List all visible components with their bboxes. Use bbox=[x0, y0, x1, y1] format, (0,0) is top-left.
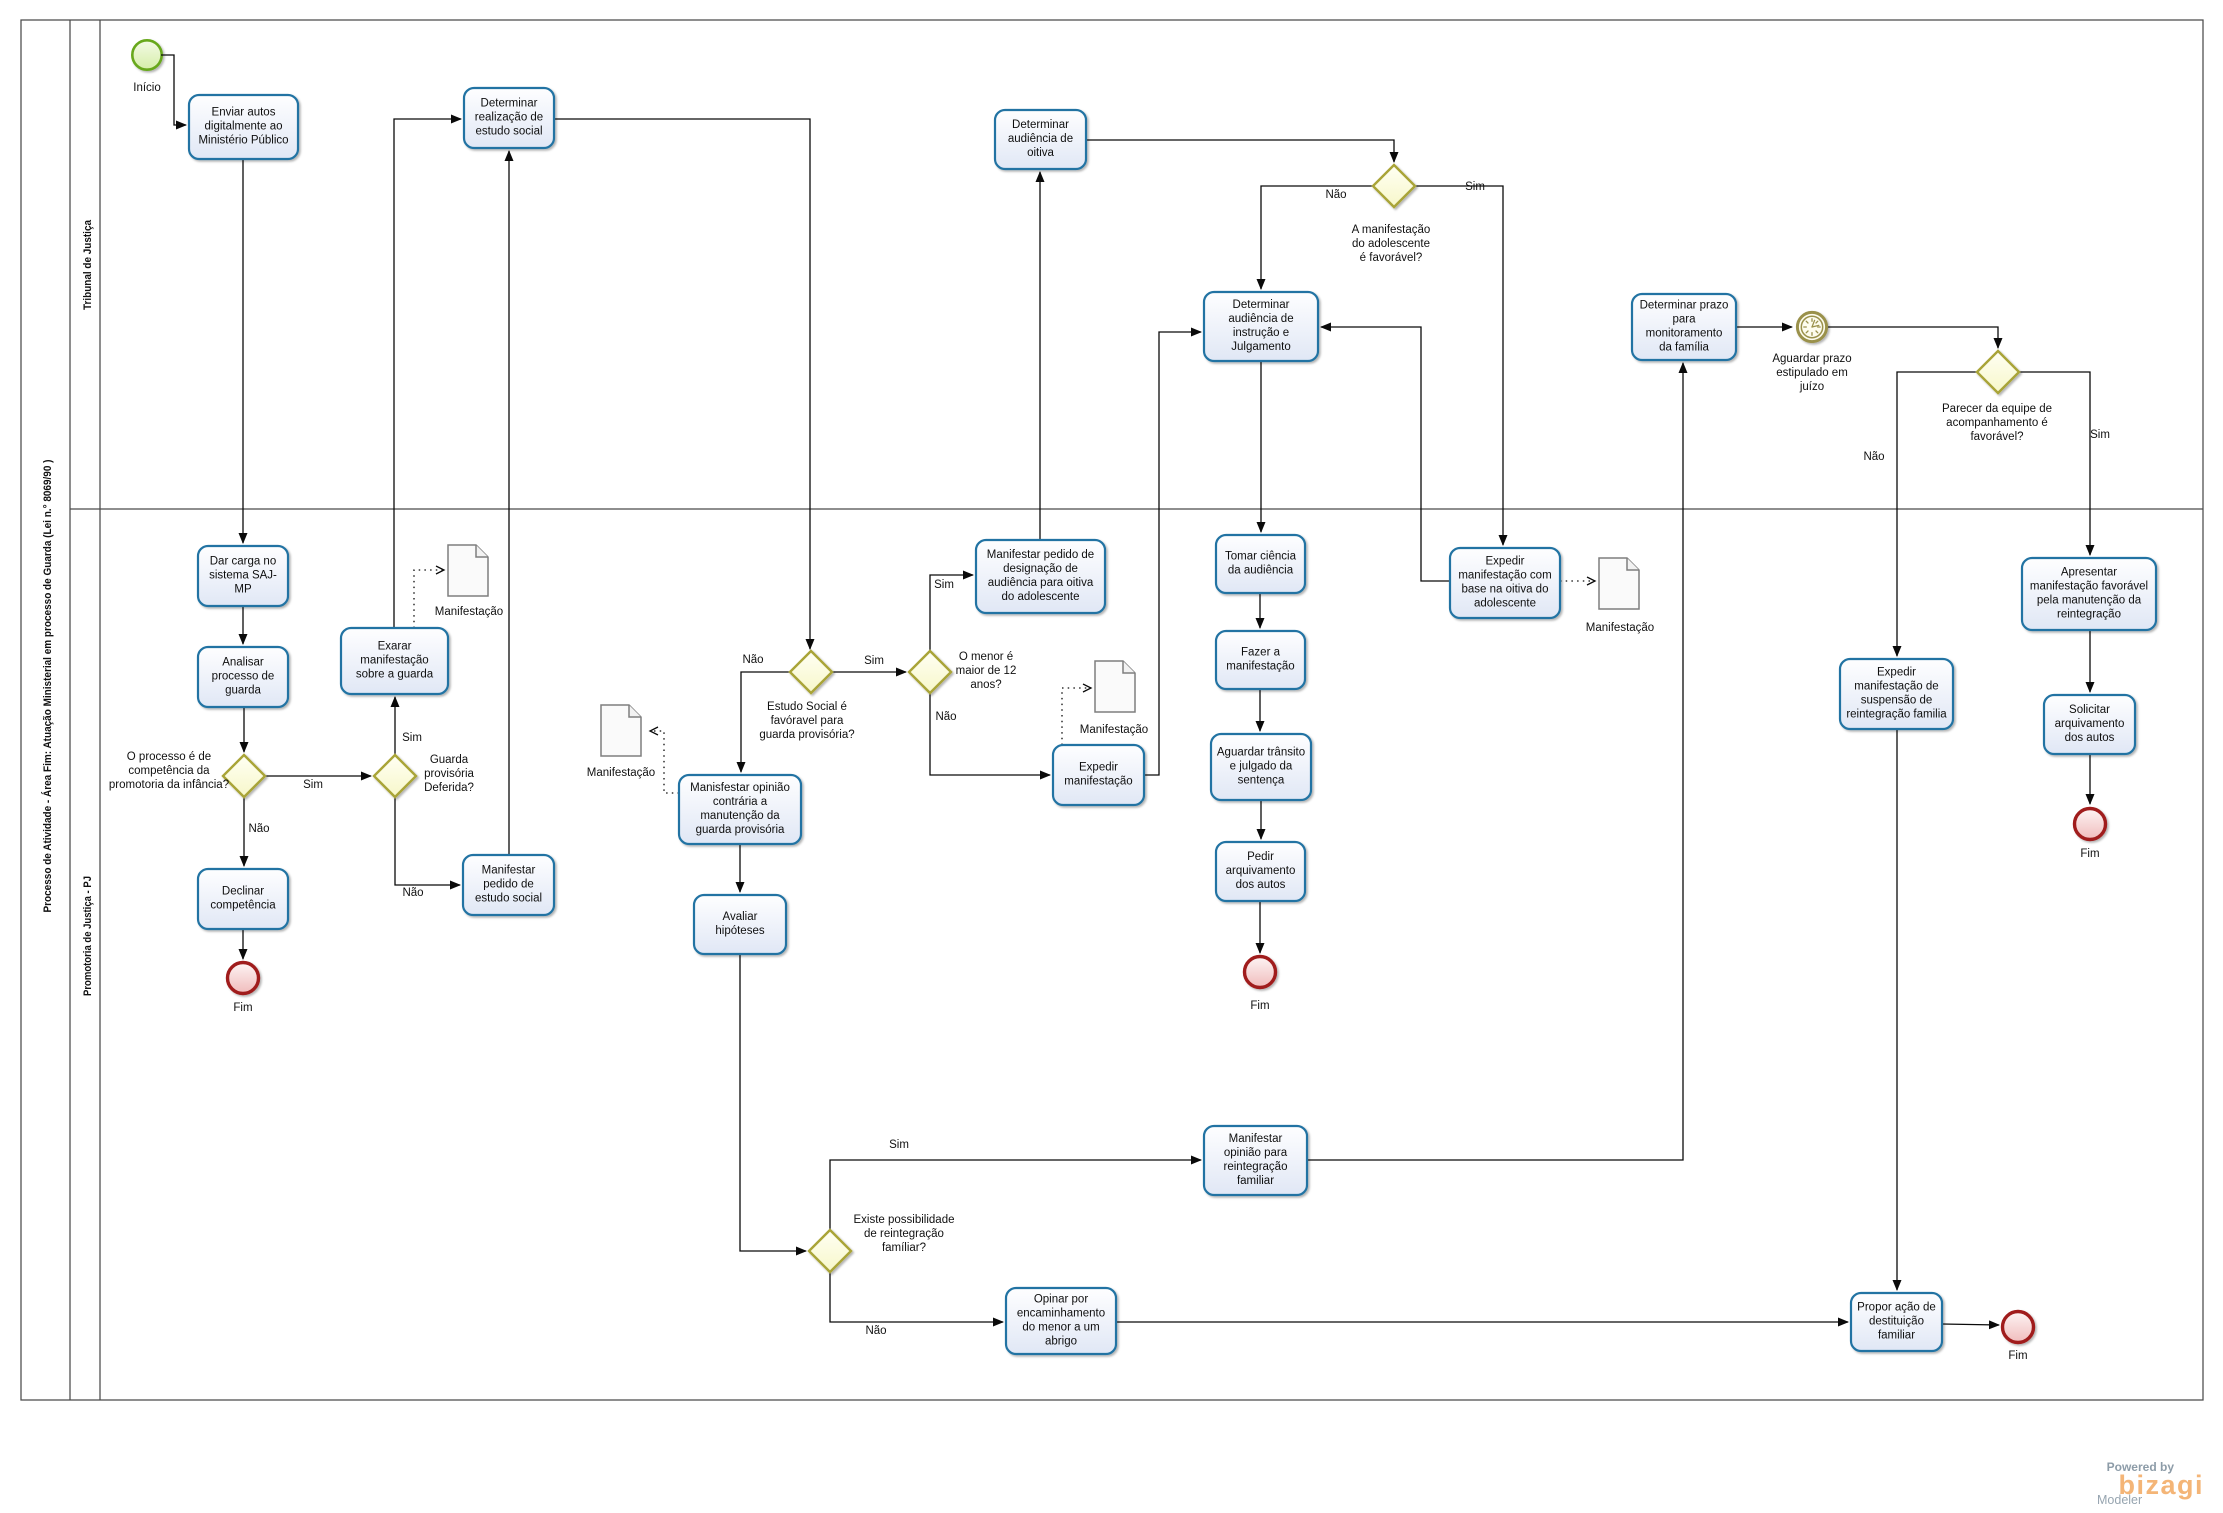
wire: Propor ação -> Fim bbox=[1942, 1324, 1999, 1325]
svg-text:Sim: Sim bbox=[934, 579, 954, 591]
task: Enviar autos digitalmente ao Ministério Público bbox=[189, 95, 298, 159]
wire: association: Exarar -> Manifestação doc bbox=[414, 570, 444, 628]
svg-text:Processo de Atividade - Área: Processo de Atividade - Área Fim: Atuaçã… bbox=[41, 459, 54, 912]
label: gateway parecer question bbox=[1942, 403, 2052, 443]
svg-text:Não: Não bbox=[248, 823, 269, 835]
wire: gateway parecer -> Apresentar manifestação (Sim) bbox=[2019, 372, 2090, 555]
svg-text:Fim: Fim bbox=[2080, 848, 2099, 860]
wire: Opinar encaminhamento -> Propor ação bbox=[1116, 1321, 1848, 1323]
svg-text:Sim: Sim bbox=[889, 1139, 909, 1151]
lane label: Tribunal de Justiça bbox=[82, 219, 94, 310]
svg-text:Determinarrealização deestudo: Determinarrealização deestudo social bbox=[475, 98, 543, 138]
end event: Fim (Declinar competência) bbox=[228, 963, 259, 1015]
wire: gateway menor -> Manifestar designação (Sim) bbox=[930, 575, 973, 651]
wire: Determinar prazo -> timer bbox=[1736, 326, 1792, 328]
wire: gateway guarda -> Manifestar pedido estudo (Não) bbox=[395, 797, 460, 885]
wire: association: Expedir com base oitiva -> Manifestação doc bbox=[1560, 580, 1595, 582]
wire: gateway manifestação adolescente -> Determinar instrução (Não) bbox=[1261, 186, 1373, 289]
label: Não (estudo social) bbox=[742, 654, 763, 666]
task: Propor ação de destituição familiar bbox=[1851, 1293, 1942, 1351]
svg-text:Início: Início bbox=[133, 82, 161, 94]
wire: Fazer manifestação -> Aguardar trânsito bbox=[1259, 689, 1261, 731]
task: Determinar audiência de instrução e Julgamento bbox=[1204, 292, 1318, 361]
task: Determinar prazo para monitoramento da família bbox=[1632, 294, 1736, 360]
gateway: O processo é de competência da promotoria da infância? bbox=[223, 755, 265, 797]
label: Sim (guarda) bbox=[402, 732, 422, 744]
task: Expedir manifestação bbox=[1053, 745, 1144, 805]
task: Exarar manifestação sobre a guarda bbox=[341, 628, 448, 694]
task: Solicitar arquivamento dos autos bbox=[2044, 695, 2135, 754]
wire: gateway guarda -> Exarar (Sim) bbox=[394, 697, 396, 755]
wire: Aguardar trânsito -> Pedir arquivamento bbox=[1260, 800, 1262, 839]
svg-text:Sim: Sim bbox=[402, 732, 422, 744]
svg-text:Não: Não bbox=[742, 654, 763, 666]
svg-text:Tribunal de Justiça: Tribunal de Justiça bbox=[82, 219, 94, 310]
svg-text:Enviar autosdigitalmente aoMin: Enviar autosdigitalmente aoMinistério Pú… bbox=[198, 107, 288, 147]
svg-text:Manifestação: Manifestação bbox=[587, 767, 655, 779]
label: gateway guarda question bbox=[424, 754, 474, 794]
svg-text:Não: Não bbox=[402, 887, 423, 899]
svg-text:Manifestação: Manifestação bbox=[1586, 622, 1654, 634]
wire: Início -> Enviar autos bbox=[161, 55, 186, 125]
task: Manifestar pedido de estudo social bbox=[463, 855, 554, 915]
svg-text:Manifestação: Manifestação bbox=[1080, 724, 1148, 736]
wire: Apresentar manifestação -> Solicitar arquivamento bbox=[2089, 630, 2091, 692]
wire: gateway reintegração -> Manifestar opinião reintegração (Sim) bbox=[830, 1160, 1201, 1230]
wire: Avaliar hipóteses -> gateway reintegração bbox=[740, 954, 806, 1251]
svg-text:Fim: Fim bbox=[1250, 1000, 1269, 1012]
data object: Manifestação (Expedir) bbox=[1080, 661, 1148, 736]
label: Sim (manifestação adolescente) bbox=[1465, 181, 1485, 193]
data object: Manifestação (Exarar) bbox=[435, 545, 503, 618]
task: Determinar realização de estudo social bbox=[464, 88, 554, 148]
label: gateway reintegração question bbox=[853, 1214, 954, 1254]
label: Não (menor) bbox=[935, 711, 956, 723]
wire: Manisfestar opinião contrária -> Avaliar hipóteses bbox=[739, 844, 741, 892]
lane label: Promotoria de Justiça - PJ bbox=[82, 876, 94, 996]
wire: gateway estudo social -> Manisfestar opinião contrária (Não) bbox=[741, 672, 790, 772]
svg-text:Não: Não bbox=[1325, 189, 1346, 201]
wire: Analisar processo -> gateway competência bbox=[243, 707, 245, 752]
label: Não (manifestação adolescente) bbox=[1325, 189, 1346, 201]
task: Expedir manifestação de suspensão de reintegração familia bbox=[1840, 659, 1953, 729]
task: Fazer a manifestação bbox=[1216, 631, 1305, 689]
label: Não (parecer) bbox=[1863, 451, 1884, 463]
wire: Dar carga -> Analisar processo bbox=[242, 607, 244, 644]
task: Declinar competência bbox=[198, 869, 288, 929]
svg-text:Não: Não bbox=[865, 1325, 886, 1337]
data object: Manifestação (contrária) bbox=[587, 705, 655, 779]
svg-text:Fim: Fim bbox=[2008, 1350, 2027, 1362]
task: Manifestar opinião para reintegração familiar bbox=[1204, 1126, 1307, 1195]
label: gateway competência question bbox=[109, 751, 229, 791]
label: Sim (reintegração) bbox=[889, 1139, 909, 1151]
svg-text:Sim: Sim bbox=[303, 779, 323, 791]
label: Sim (parecer) bbox=[2090, 429, 2110, 441]
label: gateway estudo social question bbox=[759, 701, 854, 741]
gateway: Existe possibilidade de reintegração famíliar? bbox=[809, 1230, 851, 1272]
label: Sim (menor) bbox=[934, 579, 954, 591]
wire: Manifestar pedido estudo -> Determinar realização bbox=[508, 151, 510, 855]
svg-text:Não: Não bbox=[935, 711, 956, 723]
wire: Expedir com base oitiva -> Determinar instrução bbox=[1321, 327, 1450, 581]
task: Tomar ciência da audiência bbox=[1216, 535, 1305, 593]
wire: gateway competência -> gateway guarda (Sim) bbox=[265, 775, 371, 777]
label: Não (competência) bbox=[248, 823, 269, 835]
svg-text:Manifestarpedido deestudo soci: Manifestarpedido deestudo social bbox=[475, 865, 542, 905]
svg-text:Não: Não bbox=[1863, 451, 1884, 463]
task: Apresentar manifestação favorável pela manutenção da reintegração bbox=[2022, 558, 2156, 630]
gateway: O menor é maior de 12 anos? bbox=[909, 651, 951, 693]
svg-text:Fim: Fim bbox=[233, 1002, 252, 1014]
wire: Pedir arquivamento -> Fim bbox=[1259, 901, 1261, 953]
task: Expedir manifestação com base na oitiva do adolescente bbox=[1450, 548, 1560, 618]
task: Manifestar pedido de designação de audiência para oitiva do adolescente bbox=[976, 540, 1105, 613]
svg-text:Modeler: Modeler bbox=[2097, 1493, 2142, 1507]
wire: Manifestar designação -> Determinar oitiva bbox=[1039, 172, 1041, 540]
label: Sim (competência) bbox=[303, 779, 323, 791]
end event: Fim (Solicitar arquivamento) bbox=[2075, 809, 2106, 861]
wire: Manifestar opinião reintegração -> Determinar prazo bbox=[1307, 363, 1683, 1160]
logo: Powered by bizagi Modeler bbox=[2097, 1460, 2204, 1507]
gateway: A manifestação do adolescente é favorável? bbox=[1373, 165, 1415, 207]
svg-text:GuardaprovisóriaDeferida?: GuardaprovisóriaDeferida? bbox=[424, 754, 474, 794]
label: Aguardar prazo estipulado em juízo bbox=[1772, 353, 1851, 393]
wire: gateway menor -> Expedir manifestação (Não) bbox=[930, 693, 1050, 775]
svg-text:Sim: Sim bbox=[1465, 181, 1485, 193]
gateway: Estudo Social é favóravel para guarda provisória? bbox=[790, 651, 832, 693]
wire: timer -> gateway parecer bbox=[1825, 327, 1998, 348]
wire: Solicitar arquivamento -> Fim bbox=[2089, 754, 2091, 804]
wire: Declinar -> Fim bbox=[242, 929, 244, 959]
wire: Tomar ciência -> Fazer manifestação bbox=[1259, 593, 1261, 628]
svg-text:Manifestação: Manifestação bbox=[435, 606, 503, 618]
wire: gateway competência -> Declinar (Não) bbox=[243, 797, 245, 866]
task: Opinar por encaminhamento do menor a um abrigo bbox=[1006, 1288, 1116, 1354]
svg-text:Estudo Social éfavóravel parag: Estudo Social éfavóravel paraguarda prov… bbox=[759, 701, 854, 741]
gateway: Parecer da equipe de acompanhamento é favorável? bbox=[1977, 351, 2019, 393]
svg-text:A manifestaçãodo adolescenteé: A manifestaçãodo adolescenteé favorável? bbox=[1352, 224, 1431, 264]
svg-text:Sim: Sim bbox=[2090, 429, 2110, 441]
wire: Expedir suspensão -> Propor ação bbox=[1896, 729, 1898, 1290]
task: Dar carga no sistema SAJ-MP bbox=[198, 546, 288, 606]
label: gateway manifestação adolescente question bbox=[1352, 224, 1431, 264]
wire: gateway manifestação adolescente -> Expedir com base oitiva (Sim) bbox=[1416, 186, 1503, 545]
wire: gateway estudo social -> gateway menor (Sim) bbox=[832, 671, 906, 673]
wire: gateway parecer -> Expedir suspensão (Não) bbox=[1897, 372, 1977, 656]
label: Não (guarda) bbox=[402, 887, 423, 899]
wire: association: Manisfestar contrária -> Manifestação doc bbox=[650, 731, 679, 793]
task: Pedir arquivamento dos autos bbox=[1216, 842, 1305, 901]
wire: gateway reintegração -> Opinar encaminhamento (Não) bbox=[830, 1272, 1003, 1322]
task: Avaliar hipóteses bbox=[694, 895, 786, 954]
label: Não (reintegração) bbox=[865, 1325, 886, 1337]
data object: Manifestação (com base na oitiva) bbox=[1586, 558, 1654, 634]
task: Manisfestar opinião contrária a manutenção da guarda provisória bbox=[679, 775, 801, 844]
end event: Fim (Propor ação) bbox=[2003, 1312, 2034, 1363]
task: Determinar audiência de oitiva bbox=[995, 110, 1086, 169]
label: Sim (estudo social) bbox=[864, 655, 884, 667]
task: Aguardar trânsito e julgado da sentença bbox=[1211, 734, 1311, 800]
gateway: Guarda provisória Deferida? bbox=[374, 755, 416, 797]
wire: Expedir manifestação -> Determinar instrução bbox=[1144, 332, 1201, 775]
intermediate timer event: Aguardar prazo estipulado em juízo bbox=[1797, 312, 1826, 341]
wire: association: Expedir manifestação -> Manifestação doc bbox=[1062, 688, 1091, 745]
wire: Enviar autos -> Dar carga bbox=[242, 159, 244, 543]
end event: Fim (Pedir arquivamento) bbox=[1245, 957, 1276, 1013]
label: gateway menor question bbox=[956, 651, 1017, 691]
wire: Exarar -> Determinar realização bbox=[394, 119, 461, 628]
wire: Determinar oitiva -> gateway manifestação adolescente bbox=[1086, 140, 1394, 162]
svg-text:Promotoria de Justiça - PJ: Promotoria de Justiça - PJ bbox=[82, 876, 94, 996]
svg-text:Sim: Sim bbox=[864, 655, 884, 667]
wire: Determinar instrução -> Tomar ciência bbox=[1260, 361, 1262, 532]
task: Analisar processo de guarda bbox=[198, 647, 288, 707]
start event: Início bbox=[132, 40, 161, 94]
pool label: Processo de Atividade - Área Fim bbox=[41, 459, 54, 912]
wire: Determinar realização -> gateway estudo social bbox=[554, 119, 810, 649]
